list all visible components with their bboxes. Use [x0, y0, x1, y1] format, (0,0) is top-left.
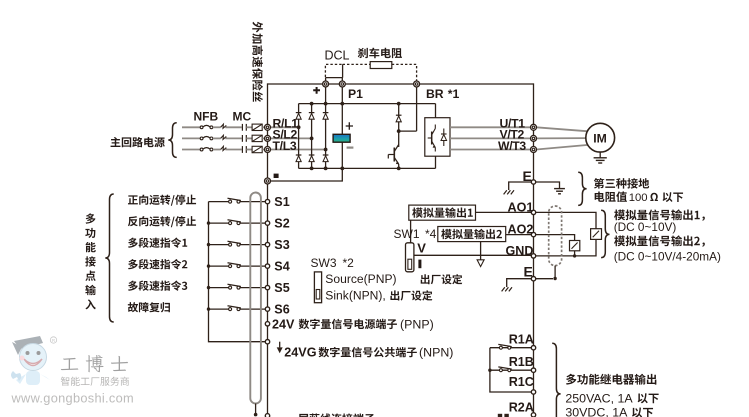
svg-text:SW1: SW1 [394, 227, 420, 241]
decor watermark 工博士 [61, 358, 79, 370]
breaker NFB pole 3 [200, 148, 203, 151]
junction common S2 [207, 221, 210, 224]
wire dashed brake resistor jumper right [392, 64, 417, 80]
terminal S4 [265, 264, 269, 268]
wire phase line L3 stub [182, 149, 200, 151]
switch digital input S1 [229, 200, 232, 203]
wire common to switch S6 [209, 308, 229, 310]
svg-text:S5: S5 [274, 281, 289, 295]
svg-text:Sink(NPN),: Sink(NPN), [325, 289, 385, 303]
wire to MC contact pole 3 [225, 149, 241, 151]
brace main circuit power [168, 123, 176, 158]
wire DC top bus [299, 103, 436, 105]
junction top bus col2 [310, 102, 314, 106]
terminal AO2 [531, 232, 535, 236]
wire box2 ground stub [480, 242, 482, 260]
relay contact R1A [499, 346, 502, 349]
wire box1 to analog common rail [411, 220, 532, 255]
wire E1 left branch [509, 182, 532, 190]
diode inverter freewheel [443, 129, 445, 135]
wire digital common line [209, 202, 266, 342]
label resistance below 100 ohm [595, 191, 627, 202]
meter analog M1 [570, 241, 580, 251]
wire switch to terminal S4 [240, 265, 265, 267]
decor watermark 智能工厂服务商 [61, 377, 129, 386]
switch digital input S4 [229, 265, 232, 268]
diode rectifier D5 bottom [309, 154, 315, 156]
decor watermark mascot [11, 336, 50, 385]
svg-text:250VAC, 1A: 250VAC, 1A [565, 391, 633, 405]
label SW1 I position [418, 260, 421, 269]
switch digital input S3 [229, 243, 232, 246]
node 24VG arrow [277, 347, 283, 353]
wire R/L1 terminal to rectifier [268, 126, 299, 128]
wire MC to fuse pole 1 [246, 126, 252, 128]
wire box1 to AO1 [476, 211, 532, 213]
wire NFB to trip element pole 2 [213, 137, 221, 139]
svg-text:P1: P1 [348, 87, 363, 101]
label + plus sign [313, 87, 320, 94]
diode rectifier D1 top [296, 112, 302, 114]
diode rectifier D4 bottom [296, 154, 302, 156]
label main circuit power 主回路电源 [111, 137, 165, 147]
terminal - (DC minus) [265, 178, 271, 184]
wire shield to E2 [554, 266, 556, 279]
breaker NFB pole 1 [200, 126, 203, 129]
terminal S6 [265, 307, 269, 311]
svg-text:30VDC, 1A: 30VDC, 1A [565, 406, 628, 417]
brace third-type grounding [578, 172, 586, 205]
brace multifunction inputs [105, 194, 113, 322]
wire common to switch S4 [209, 265, 229, 267]
label function 反向运转/停止 [128, 216, 196, 227]
svg-text:NFB: NFB [194, 110, 219, 124]
wire brake IGBT emitter to bottom bus [398, 164, 400, 168]
terminal BR [414, 81, 420, 87]
wire to MC contact pole 1 [225, 126, 241, 128]
reactor DCL dashed option box [325, 64, 342, 77]
meter analog M2 [591, 229, 602, 240]
wire meter1 to GND rail [574, 251, 576, 256]
svg-text:S4: S4 [274, 260, 289, 274]
svg-text:R1B: R1B [509, 355, 534, 369]
terminal S/L2 [265, 135, 271, 141]
label function 故障复归 [128, 302, 170, 312]
wire common to switch S5 [209, 287, 229, 289]
overcurrent trip zigzag pole 2 [221, 135, 227, 139]
wire switch to terminal S5 [240, 287, 265, 289]
wire switch to terminal S2 [240, 222, 265, 224]
label brake resistor 刹车电阻 [358, 48, 402, 59]
terminal 24VG [265, 340, 269, 344]
diode rectifier D2 top [309, 112, 315, 114]
label relay output 多功能继电器输出 [566, 374, 656, 385]
label 24VG description [319, 347, 417, 357]
label SW1 factory setting 出厂设定 [421, 274, 463, 284]
terminal S1 [265, 199, 269, 203]
terminal R2A [531, 413, 535, 417]
terminal P1 [339, 81, 345, 87]
terminal E2 ground [531, 277, 535, 281]
wire rectifier column 3 and + terminal lead [325, 87, 327, 168]
fuse pole 1 [252, 124, 262, 130]
wire drive frame top bus (+/P1/BR rail) [268, 83, 534, 85]
junction bottom bus col3 [324, 167, 328, 171]
switch digital input S6 [229, 308, 232, 311]
terminal R1C [531, 390, 535, 394]
svg-text:*1: *1 [448, 87, 460, 101]
wire W/T3 to motor [536, 145, 588, 150]
wire DC bottom bus [299, 167, 436, 169]
svg-text:GND: GND [506, 244, 534, 258]
switch SW1 V/I selector [406, 243, 414, 272]
node analog common arrow [477, 260, 484, 267]
wire bottom bus to inverter [435, 156, 437, 168]
svg-text:BR: BR [426, 87, 444, 101]
svg-text:www.gongboshi.com: www.gongboshi.com [11, 391, 134, 406]
wire E1 right branch [536, 182, 560, 189]
wire AO2 to meter1 [536, 235, 575, 241]
svg-text:S1: S1 [274, 195, 289, 209]
op-amp inverter output stage U1 box [425, 118, 450, 157]
wire fuse to input terminal pole 2 [262, 137, 265, 139]
junction top bus col3 [324, 102, 328, 106]
terminal GND [531, 254, 535, 258]
label function 正向运转/停止 [128, 195, 196, 206]
svg-text:100: 100 [629, 192, 648, 204]
svg-text:*2: *2 [343, 256, 355, 270]
transistor brake IGBT [393, 148, 395, 162]
wire R1A contact to terminal [490, 347, 531, 349]
wire E2 left branch [507, 279, 532, 287]
wire drive right frame line [533, 83, 535, 417]
wire phase line L2 stub [182, 137, 200, 139]
terminal AO1 [531, 210, 535, 214]
wire E2 to shield [536, 278, 553, 280]
svg-text:AO1: AO1 [508, 200, 534, 214]
terminal T/L3 [265, 147, 271, 153]
label analog out2 模拟量信号输出2， [614, 235, 705, 246]
relay contact R1B [499, 369, 502, 372]
wire BR terminal lead down [416, 87, 418, 131]
diode rectifier D6 bottom [323, 154, 329, 156]
wire common to switch S3 [209, 244, 229, 246]
wire inverter to U/T1 terminal [450, 126, 531, 128]
brace relay outputs [552, 343, 560, 417]
transistor inverter IGBT symbol [431, 132, 433, 145]
cable digital shielded oval [250, 193, 261, 404]
label box analog output2 模拟量输出2 [438, 227, 506, 242]
svg-text:T/L3: T/L3 [273, 139, 297, 153]
label 24V description [299, 319, 397, 329]
decor watermark registered mark [50, 337, 56, 343]
svg-text:SW3: SW3 [311, 256, 337, 270]
wire phase line L1 stub [182, 126, 200, 128]
label box analog output1 模拟量输出1 [409, 205, 476, 220]
label function 多段速指令2 [128, 259, 187, 269]
ground E1 right earth symbol [554, 188, 565, 190]
terminal S5 [265, 285, 269, 289]
junction common S4 [207, 264, 210, 267]
svg-text:R2A: R2A [509, 401, 534, 415]
diode rectifier D3 top [323, 112, 329, 114]
svg-text:S2: S2 [274, 217, 289, 231]
junction chopper bottom bus [397, 167, 401, 171]
wire common to switch S2 [209, 222, 229, 224]
svg-text:(DC 0~10V): (DC 0~10V) [614, 220, 677, 234]
wire fuse to input terminal pole 1 [262, 126, 265, 128]
motor IM [586, 123, 615, 152]
cable analog shielded oval [549, 206, 562, 266]
terminal + (DC plus) [323, 81, 329, 87]
svg-text:AO2: AO2 [508, 223, 534, 237]
junction relay common R1B [488, 369, 491, 372]
breaker NFB pole 2 [200, 137, 203, 140]
junction common S3 [207, 243, 210, 246]
terminal R/L1 [265, 124, 271, 130]
terminal 24V [265, 322, 269, 326]
junction common S5 [207, 286, 210, 289]
diode brake chopper [396, 114, 402, 116]
wire AO1 to meter2 [536, 212, 596, 228]
junction common S6 [207, 307, 210, 310]
wire BR to chopper midpoint [399, 130, 417, 132]
contactor MC contact pole 1 [241, 124, 243, 131]
terminal W/T3 [531, 147, 537, 153]
svg-text:(DC 0~10V/4-20mA): (DC 0~10V/4-20mA) [614, 250, 721, 264]
wire GND rail to meters [536, 239, 596, 256]
junction P1 top bus [340, 102, 344, 106]
wire relay common line [490, 348, 531, 392]
svg-text:MC: MC [233, 110, 252, 124]
wire to MC contact pole 2 [225, 137, 241, 139]
label cap - polarity [347, 147, 354, 149]
svg-text:24VG: 24VG [284, 346, 316, 360]
wire MC to fuse pole 3 [246, 149, 252, 151]
wire inverter to W/T3 terminal [450, 149, 531, 151]
svg-text:*4: *4 [425, 227, 437, 241]
brace analog outputs [601, 210, 609, 257]
wire MC to fuse pole 2 [246, 137, 252, 139]
wire rectifier column 1 [298, 104, 300, 169]
terminal E1 ground [531, 180, 535, 184]
wire rectifier column 2 [311, 104, 313, 169]
wire common to switch S1 [209, 201, 229, 203]
svg-text:Source(PNP): Source(PNP) [325, 272, 396, 286]
svg-text:S3: S3 [274, 238, 289, 252]
wire top bus to inverter [435, 104, 437, 118]
wire S/L2 terminal to rectifier [268, 137, 312, 139]
terminal R1A [531, 346, 535, 350]
wire fuse to input terminal pole 3 [262, 149, 265, 151]
label cap + polarity [346, 122, 353, 129]
wire U/T1 to motor [536, 127, 588, 131]
ground E2 earth symbol [502, 287, 512, 291]
wire dashed brake resistor jumper left [343, 63, 371, 65]
terminal V/T2 [531, 135, 537, 141]
overcurrent trip zigzag pole 3 [221, 146, 227, 150]
wire NFB to trip element pole 3 [213, 149, 221, 151]
wire V/T2 to motor [536, 137, 586, 139]
label analog out1 模拟量信号输出1， [614, 209, 705, 220]
wire DC minus to - terminal [268, 168, 343, 181]
svg-text:E: E [524, 263, 533, 279]
wire switch to terminal S3 [240, 244, 265, 246]
junction T/L3 to bridge [324, 148, 328, 152]
label multifunction contact input 多功能接点输入 [85, 213, 96, 309]
label - minus sign [274, 174, 279, 178]
relay contact R2A (cut) [498, 414, 502, 417]
label shield terminal 屏蔽线连接端子 (cut at bottom) [298, 413, 374, 417]
svg-text:S6: S6 [274, 303, 289, 317]
svg-text:DCL: DCL [325, 49, 350, 63]
contactor MC contact pole 2 [241, 135, 243, 142]
label function 多段速指令3 [128, 280, 187, 290]
svg-text:R1C: R1C [509, 375, 534, 389]
svg-text:W/T3: W/T3 [498, 139, 526, 153]
svg-text:(NPN): (NPN) [419, 346, 453, 360]
switch digital input S5 [229, 286, 232, 289]
ground motor frame [599, 152, 601, 158]
label function 多段速指令1 [128, 237, 187, 247]
wire inverter to V/T2 terminal [450, 137, 531, 139]
wire box2 to AO2 [506, 234, 532, 236]
fuse pole 2 [252, 135, 262, 141]
svg-text:24V: 24V [272, 318, 295, 332]
fuse pole 3 [252, 146, 262, 152]
junction shield ground dot [254, 413, 258, 417]
terminal S3 [265, 242, 269, 246]
wire drive left frame line [267, 83, 269, 417]
terminal S2 [265, 221, 269, 225]
wire brake chopper column [398, 104, 400, 147]
label third type grounding 第三种接地 [594, 178, 649, 189]
svg-text:R1A: R1A [509, 332, 534, 346]
junction cap bottom bus [340, 167, 344, 171]
wire shield drop to ground dot [255, 404, 257, 415]
wire NFB to trip element pole 1 [213, 126, 221, 128]
overcurrent trip zigzag pole 1 [221, 124, 227, 128]
junction chopper top bus [397, 102, 401, 106]
svg-text:V: V [417, 241, 426, 256]
junction R/L1 to bridge [297, 125, 301, 129]
junction bottom bus col2 [310, 167, 314, 171]
label vertical text external high-speed fuse 外加高速保险丝 [252, 22, 263, 102]
junction shield E2 [553, 277, 556, 280]
contactor MC contact pole 3 [241, 146, 243, 153]
wire switch to terminal S1 [240, 201, 265, 203]
terminal U/T1 [531, 124, 537, 130]
ground E1 left earth symbol [504, 190, 514, 194]
wire P1 to DC link [341, 87, 343, 168]
svg-text:(PNP): (PNP) [400, 318, 434, 332]
wire R1B contact to terminal [490, 369, 531, 371]
terminal shield connection (cut) [265, 414, 269, 417]
junction chopper midpoint [397, 129, 401, 133]
junction S/L2 to bridge [310, 137, 314, 141]
svg-text:IM: IM [593, 131, 607, 145]
junction meter1 ground [573, 254, 576, 257]
wire switch to terminal S6 [240, 308, 265, 310]
resistor brake 刹车电阻 [370, 62, 392, 69]
switch SW3 sink/source selector [314, 272, 321, 303]
terminal R1B [531, 368, 535, 372]
wire T/L3 terminal to rectifier [268, 149, 326, 151]
switch digital input S2 [229, 222, 232, 225]
